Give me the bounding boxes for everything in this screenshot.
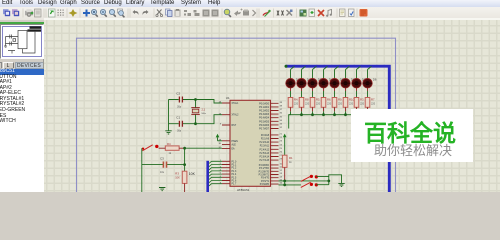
svg-text:P1.3: P1.3 — [232, 171, 237, 173]
svg-text:P2.1/A9: P2.1/A9 — [261, 138, 270, 141]
resistor R8 — [299, 98, 310, 112]
junction dots on common rail — [300, 113, 347, 116]
icon: mark region — [35, 9, 42, 17]
svg-text:P2.4/A12: P2.4/A12 — [260, 148, 270, 151]
icon: zoom in — [91, 9, 96, 14]
mcu right pin stubs — [271, 103, 279, 184]
wire node down — [184, 148, 186, 171]
svg-text:1k: 1k — [169, 152, 172, 155]
svg-text:P1.7: P1.7 — [232, 184, 237, 186]
green status line — [0, 22, 44, 24]
sheet border — [77, 38, 396, 192]
svg-text:EA: EA — [232, 147, 236, 150]
svg-text:MHz: MHz — [202, 113, 207, 115]
icon: paste — [175, 10, 181, 17]
svg-text:33: 33 — [280, 124, 283, 126]
svg-text:9: 9 — [220, 124, 222, 126]
svg-text:13: 13 — [280, 173, 283, 175]
wire xtal2 to mcu — [196, 115, 223, 124]
icon: decompose — [253, 10, 256, 16]
icon: pan — [83, 10, 90, 17]
overview preview window — [0, 24, 44, 59]
svg-text:220: 220 — [305, 102, 310, 105]
junction dot C3 node — [183, 163, 186, 166]
icon: copy — [166, 9, 171, 15]
svg-text:10K: 10K — [189, 172, 196, 176]
svg-text:R4: R4 — [294, 98, 298, 102]
LED D5 — [330, 78, 344, 92]
svg-text:P0.3/AD3: P0.3/AD3 — [259, 113, 270, 116]
schematic canvas — [44, 19, 500, 192]
svg-text:P2.3/A11: P2.3/A11 — [260, 145, 270, 148]
preview mini schematic — [4, 26, 41, 53]
bus P1 vertical — [206, 161, 209, 192]
op: mcu U1 — [226, 96, 271, 192]
svg-text:R3: R3 — [175, 171, 179, 175]
svg-text:10K: 10K — [175, 177, 180, 180]
icon: zoom out — [100, 9, 105, 14]
icon: refresh sheet — [49, 9, 56, 17]
svg-text:RST: RST — [232, 125, 237, 127]
svg-text:21: 21 — [280, 134, 283, 136]
svg-text:P2.0/A8: P2.0/A8 — [261, 134, 270, 137]
ground crystal — [165, 131, 171, 134]
ground switch — [338, 183, 344, 186]
icon: print — [25, 11, 33, 16]
svg-text:XTAL2: XTAL2 — [232, 114, 240, 117]
resistor R5 — [310, 98, 321, 112]
svg-text:P1.1: P1.1 — [232, 165, 237, 167]
power vcc arrow R1 — [283, 134, 287, 156]
svg-text:R7: R7 — [371, 98, 375, 102]
toolbar — [0, 7, 500, 21]
resistor R9 — [332, 98, 343, 112]
capacitor C2 — [169, 92, 196, 109]
svg-text:30p: 30p — [177, 130, 182, 133]
icon: electrical check — [349, 9, 355, 17]
svg-text:P0.2/AD2: P0.2/AD2 — [259, 110, 270, 113]
svg-text:220: 220 — [327, 102, 332, 105]
DEVICES header — [15, 62, 44, 69]
power vcc arrow EA — [216, 134, 222, 141]
svg-text:P2.7/A15: P2.7/A15 — [260, 159, 270, 162]
LED D1 — [286, 78, 300, 92]
icon: redo — [143, 10, 149, 15]
svg-text:P3.3/INT1: P3.3/INT1 — [259, 175, 270, 177]
icon: block copy — [184, 10, 191, 16]
svg-text:U1: U1 — [226, 96, 230, 100]
reset button lever — [142, 145, 159, 151]
capacitor C3 — [142, 156, 185, 174]
wire to EA — [185, 147, 222, 149]
svg-text:P1.5: P1.5 — [232, 177, 237, 179]
svg-text:220: 220 — [316, 102, 321, 105]
svg-text:R4: R4 — [167, 142, 171, 146]
svg-text:32: 32 — [280, 127, 283, 129]
icon: remove sheet — [318, 10, 324, 16]
icon: zoom area — [109, 9, 114, 14]
wire resistor common rail — [289, 115, 368, 129]
resistor R6 — [321, 98, 332, 112]
watermark 百科全说 — [351, 109, 473, 162]
switch S1 top — [301, 175, 318, 182]
LED D6 — [341, 78, 355, 92]
svg-text:P0.5/AD5: P0.5/AD5 — [259, 120, 270, 123]
svg-text:12: 12 — [280, 170, 283, 172]
svg-text:26: 26 — [280, 152, 283, 154]
wire switch right riser — [329, 175, 342, 185]
icon: undo — [133, 10, 139, 15]
capacitor C1 — [169, 116, 196, 133]
switch S1 bottom — [301, 182, 318, 187]
svg-text:10u: 10u — [160, 171, 165, 174]
LED D7 — [352, 78, 366, 92]
left panel — [0, 20, 44, 192]
LED D4 — [319, 78, 333, 92]
svg-text:25: 25 — [280, 148, 283, 150]
svg-text:P1.4: P1.4 — [232, 174, 237, 176]
icon: bill of materials — [340, 9, 346, 17]
svg-text:P0.6/AD6: P0.6/AD6 — [259, 124, 270, 127]
svg-text:39: 39 — [280, 102, 283, 104]
mcu left pin stubs — [222, 103, 230, 184]
svg-text:220: 220 — [371, 102, 376, 105]
svg-text:P3.6/WR: P3.6/WR — [260, 184, 270, 186]
svg-text:P1.0: P1.0 — [232, 161, 237, 163]
svg-text:P1.2: P1.2 — [232, 168, 237, 170]
icon: block move — [194, 10, 197, 13]
wire P3 row to switch top — [279, 180, 329, 182]
resistor R3b — [354, 98, 365, 112]
resistor R3 — [175, 171, 187, 192]
svg-text:P3.0/RXD: P3.0/RXD — [259, 165, 270, 167]
svg-text:P0.7/AD7: P0.7/AD7 — [259, 128, 270, 131]
icon: goto sheet — [328, 10, 332, 16]
wire P3 row 2 — [279, 184, 302, 186]
svg-text:PSEN: PSEN — [232, 141, 239, 143]
svg-text:220: 220 — [360, 102, 365, 105]
svg-text:35: 35 — [280, 116, 283, 118]
mcu pin labels left — [232, 102, 240, 186]
resistor R4 — [288, 98, 299, 112]
svg-text:16: 16 — [280, 183, 283, 185]
svg-text:P2.2/A10: P2.2/A10 — [260, 141, 270, 144]
svg-text:P1.6: P1.6 — [232, 181, 237, 183]
junction dot switch — [327, 180, 330, 183]
svg-text:220: 220 — [294, 102, 299, 105]
svg-text:24: 24 — [280, 144, 283, 146]
icon: netlist to ares — [360, 9, 368, 17]
svg-text:R1: R1 — [289, 156, 293, 160]
icon: design explorer — [300, 10, 307, 17]
svg-text:D8: D8 — [373, 78, 377, 82]
LED D2 — [297, 78, 311, 92]
svg-text:34: 34 — [280, 120, 283, 122]
icon: search tag — [277, 11, 284, 16]
svg-text:P2.6/A14: P2.6/A14 — [260, 156, 270, 159]
crystal X1 — [191, 100, 206, 124]
svg-text:36: 36 — [280, 113, 283, 115]
wire R1 to bottom row — [284, 181, 286, 185]
menu bar — [0, 0, 500, 7]
svg-text:14: 14 — [280, 176, 283, 178]
junction dot R2 node — [183, 147, 186, 150]
icon: block rotate — [203, 10, 210, 17]
svg-text:C3: C3 — [160, 156, 164, 160]
svg-text:220: 220 — [338, 102, 343, 105]
resistor R1 — [282, 155, 293, 181]
junction dots R1 bottom — [283, 180, 286, 183]
bus entries P1 wires — [209, 161, 222, 186]
icon: cut — [157, 10, 162, 15]
svg-text:P3.1/TXD: P3.1/TXD — [259, 168, 269, 170]
icon: property assignment — [287, 10, 293, 16]
junction dots crystal — [194, 98, 197, 101]
svg-text:R9: R9 — [338, 98, 342, 102]
LED D3 — [308, 78, 322, 92]
svg-text:P0.0/AD0: P0.0/AD0 — [259, 102, 270, 105]
icon: pick parts — [224, 9, 230, 15]
mcu pin numbers left — [219, 102, 222, 185]
icon: wire autorouter — [263, 12, 269, 16]
svg-text:38: 38 — [280, 106, 283, 108]
bus rail top — [286, 66, 390, 192]
device list — [0, 69, 44, 192]
svg-text:R3: R3 — [360, 98, 364, 102]
icon: origin — [69, 9, 78, 17]
schematic svg overlay — [0, 0, 500, 192]
bus node dot — [285, 65, 288, 68]
svg-text:XTAL1: XTAL1 — [232, 102, 240, 105]
svg-text:ALE: ALE — [232, 144, 237, 147]
svg-text:2.2: 2.2 — [202, 108, 206, 112]
svg-text:P0.1/AD1: P0.1/AD1 — [259, 106, 270, 109]
svg-text:1k: 1k — [289, 161, 292, 164]
wire switch out top — [316, 177, 329, 185]
svg-text:P0.4/AD4: P0.4/AD4 — [259, 117, 270, 120]
svg-text:P2.5/A13: P2.5/A13 — [260, 152, 270, 155]
icon: block delete — [212, 10, 219, 17]
ground bottom left — [159, 188, 165, 191]
icon: new design — [3, 9, 9, 14]
L button — [3, 62, 14, 69]
icon: grid toggle — [58, 10, 64, 16]
svg-text:30: 30 — [219, 143, 222, 145]
mcu pin labels right — [259, 102, 270, 186]
svg-text:P3.5/T1: P3.5/T1 — [261, 181, 270, 183]
resistor R7 — [365, 98, 376, 112]
wire xtal1 to mcu — [196, 100, 223, 104]
icon: open design — [12, 9, 18, 14]
svg-text:37: 37 — [280, 109, 283, 111]
svg-text:R8: R8 — [305, 98, 309, 102]
svg-text:AT89C51: AT89C51 — [237, 188, 250, 192]
svg-text:R5: R5 — [316, 98, 320, 102]
svg-text:R6: R6 — [327, 98, 331, 102]
svg-text:C2: C2 — [176, 92, 180, 96]
wire caps to ground — [168, 100, 170, 131]
svg-text:30p: 30p — [177, 106, 182, 109]
wire reset left drop — [141, 148, 143, 192]
icon: new sheet — [309, 9, 315, 17]
LED D8 — [363, 78, 377, 92]
resistor R10 — [343, 98, 354, 112]
svg-text:C1: C1 — [176, 116, 180, 120]
svg-text:23: 23 — [280, 141, 283, 143]
svg-text:22: 22 — [280, 137, 283, 139]
wire net leds to resistors (columns) — [291, 66, 372, 114]
svg-text:220: 220 — [349, 102, 354, 105]
icon: packaging tool — [243, 11, 249, 16]
mcu pin numbers right — [280, 102, 283, 185]
svg-text:P3.4/T0: P3.4/T0 — [261, 178, 270, 180]
icon: make device — [234, 11, 241, 17]
resistor R2 horizontal — [159, 142, 185, 155]
P button sliver — [0, 62, 2, 69]
svg-text:P3.2/INT0: P3.2/INT0 — [259, 171, 270, 173]
icon: zoom all — [118, 9, 123, 13]
